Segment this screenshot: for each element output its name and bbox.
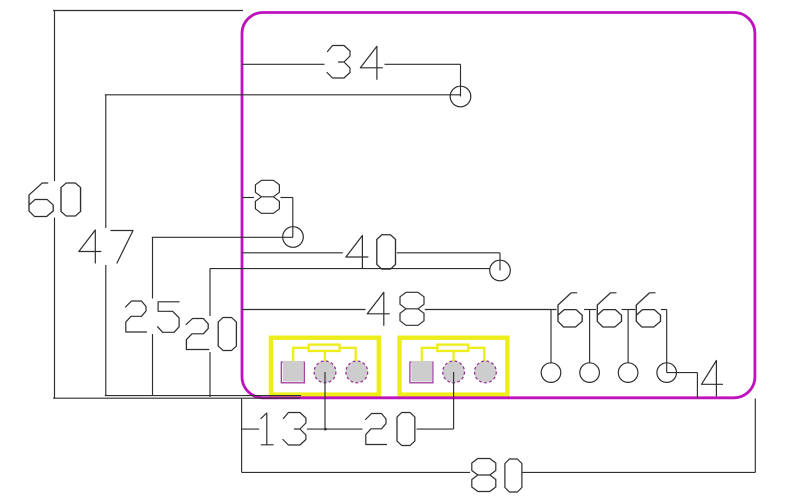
component J2 lead to pad 2 xyxy=(452,351,454,362)
dimension text 20 (J1-J2 pitch) xyxy=(366,413,415,446)
extension line from board corner for 13/80 xyxy=(241,399,243,473)
dimension 25 line (upper segment) xyxy=(152,237,154,298)
dimension 40 line (right segment) xyxy=(397,252,500,254)
dimension 80 right extension line xyxy=(754,399,756,473)
pad P4 xyxy=(657,363,677,383)
dimension 60 line (lower segment) xyxy=(54,218,56,399)
dimension 13 line (left segment) xyxy=(242,428,260,430)
component J2 body (fuse element) xyxy=(437,345,468,351)
pad P1 xyxy=(541,363,561,383)
dimension 20 line (lower segment) xyxy=(209,352,211,397)
dimension 8 line (right segment) xyxy=(281,197,293,199)
dimension 20 line (upper segment) xyxy=(209,269,211,316)
dimension 60 top extension line xyxy=(53,10,243,12)
dimension 6 line (segment P1-P2) xyxy=(584,309,596,311)
dimension 47 top extension line to hole H1 xyxy=(105,94,461,96)
component J2 pad 1 (square) xyxy=(410,362,433,383)
dimension text 6 (P2-P3 pitch) xyxy=(597,293,621,327)
dimension text 8 (hole H2 offset) xyxy=(255,180,279,213)
extension line down to pad P4 xyxy=(666,310,668,373)
dimension 40 extension down to hole H3 xyxy=(499,253,501,271)
dimension 80 line (left segment) xyxy=(242,471,470,473)
dimension text 80 xyxy=(472,459,522,493)
component J2 pad 2 (round) xyxy=(443,361,465,383)
extension line from J2 pad 2 xyxy=(453,372,455,429)
component J1 pad 3 (round) xyxy=(346,361,368,383)
component J1 lead to pad 1 xyxy=(293,348,309,363)
hole H1 xyxy=(450,86,471,107)
component J1 pad 2 (round) xyxy=(314,361,336,383)
junction dot at dimension line xyxy=(324,428,327,431)
dimension text 60 xyxy=(29,183,81,217)
component J1 outline xyxy=(271,338,379,395)
dimension 40 line (left segment) xyxy=(242,252,343,254)
dimension 34 line (left segment) xyxy=(242,63,325,65)
dimension text 34 xyxy=(327,46,382,80)
dimension 47 line (upper segment) xyxy=(105,95,107,228)
dimension 47 bottom extension line xyxy=(105,395,301,397)
pad P2 xyxy=(580,363,600,383)
hole H2 xyxy=(283,227,304,248)
extension line down to pad P2 xyxy=(589,310,591,363)
dimension text 48 xyxy=(367,292,424,325)
dimension 25 top extension line to hole H2 xyxy=(152,236,293,238)
dimension 20 line (right segment) xyxy=(417,428,454,430)
dimension text 47 xyxy=(79,230,133,263)
dimension text 40 xyxy=(346,235,396,269)
dimension 6 line (segment P2-P3) xyxy=(622,309,636,311)
dimension 34 line (right segment) xyxy=(385,63,461,65)
dimension 6 line (segment P3-P4) xyxy=(661,309,667,311)
dimension 48 line (segment to pad P1) xyxy=(425,309,557,311)
dimension text 6 (P3-P4 pitch) xyxy=(636,293,660,327)
component J1 lead to pad 2 xyxy=(324,351,326,362)
pad P3 xyxy=(618,363,638,383)
dimension 8 line (left segment) xyxy=(242,197,254,199)
component J2 lead to pad 3 xyxy=(468,348,484,362)
dimension text 6 (P1-P2 pitch) xyxy=(558,293,582,327)
dimension 4 vertical to board edge xyxy=(696,373,698,398)
component J2 outline xyxy=(400,338,508,395)
dimension 60 line (upper segment) xyxy=(54,11,56,182)
dimension 34 extension down to hole H1 xyxy=(460,64,462,96)
dimension 4 horizontal from pad P4 xyxy=(667,372,698,374)
component J2 lead to pad 1 xyxy=(422,348,438,363)
dimension 20 top extension line to hole H3 xyxy=(210,268,490,270)
extension line down to pad P3 xyxy=(627,310,629,363)
dimension 13/20 line (middle segment) xyxy=(307,428,363,430)
extension line from J1 pad 2 xyxy=(324,372,326,429)
dimension 47 line (lower segment) xyxy=(105,265,107,396)
dimension 48 line (left segment) xyxy=(242,309,366,311)
dimension text 4 (pad row to board edge) xyxy=(702,361,723,396)
extension line down to pad P1 xyxy=(550,310,552,363)
dimension 80 line (right segment) xyxy=(522,471,755,473)
dimension 25 line (lower segment) xyxy=(152,334,154,396)
component J1 pad 1 (square) xyxy=(281,362,304,383)
dimension 60 bottom extension line xyxy=(53,397,300,399)
dimension text 20 (hole H3 offset) xyxy=(186,318,236,351)
dimension 8 extension down to hole H2 xyxy=(292,198,294,238)
board outline (PCB edge) xyxy=(242,13,755,398)
hole H3 xyxy=(490,260,511,281)
component J2 pad 3 (round) xyxy=(475,361,497,383)
component J1 body (fuse element) xyxy=(309,345,340,351)
dimension text 25 xyxy=(126,301,180,332)
dimension text 13 xyxy=(261,413,306,446)
component J1 lead to pad 3 xyxy=(340,348,356,362)
